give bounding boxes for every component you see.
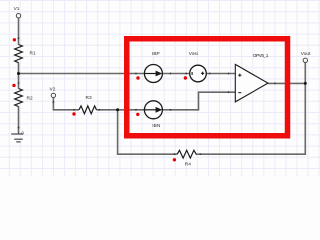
svg-text:IBN: IBN xyxy=(152,123,161,129)
svg-text:R2: R2 xyxy=(27,96,33,102)
svg-text:V2: V2 xyxy=(50,86,56,92)
svg-text:OPV5_1: OPV5_1 xyxy=(253,53,269,59)
svg-text:Vout: Vout xyxy=(301,51,311,57)
svg-text:IBP: IBP xyxy=(152,51,160,57)
svg-text:R4: R4 xyxy=(185,161,191,167)
svg-text:Vosi: Vosi xyxy=(189,51,198,57)
svg-text:R3: R3 xyxy=(86,95,92,101)
svg-text:V1: V1 xyxy=(14,6,20,12)
svg-text:R1: R1 xyxy=(30,50,36,56)
